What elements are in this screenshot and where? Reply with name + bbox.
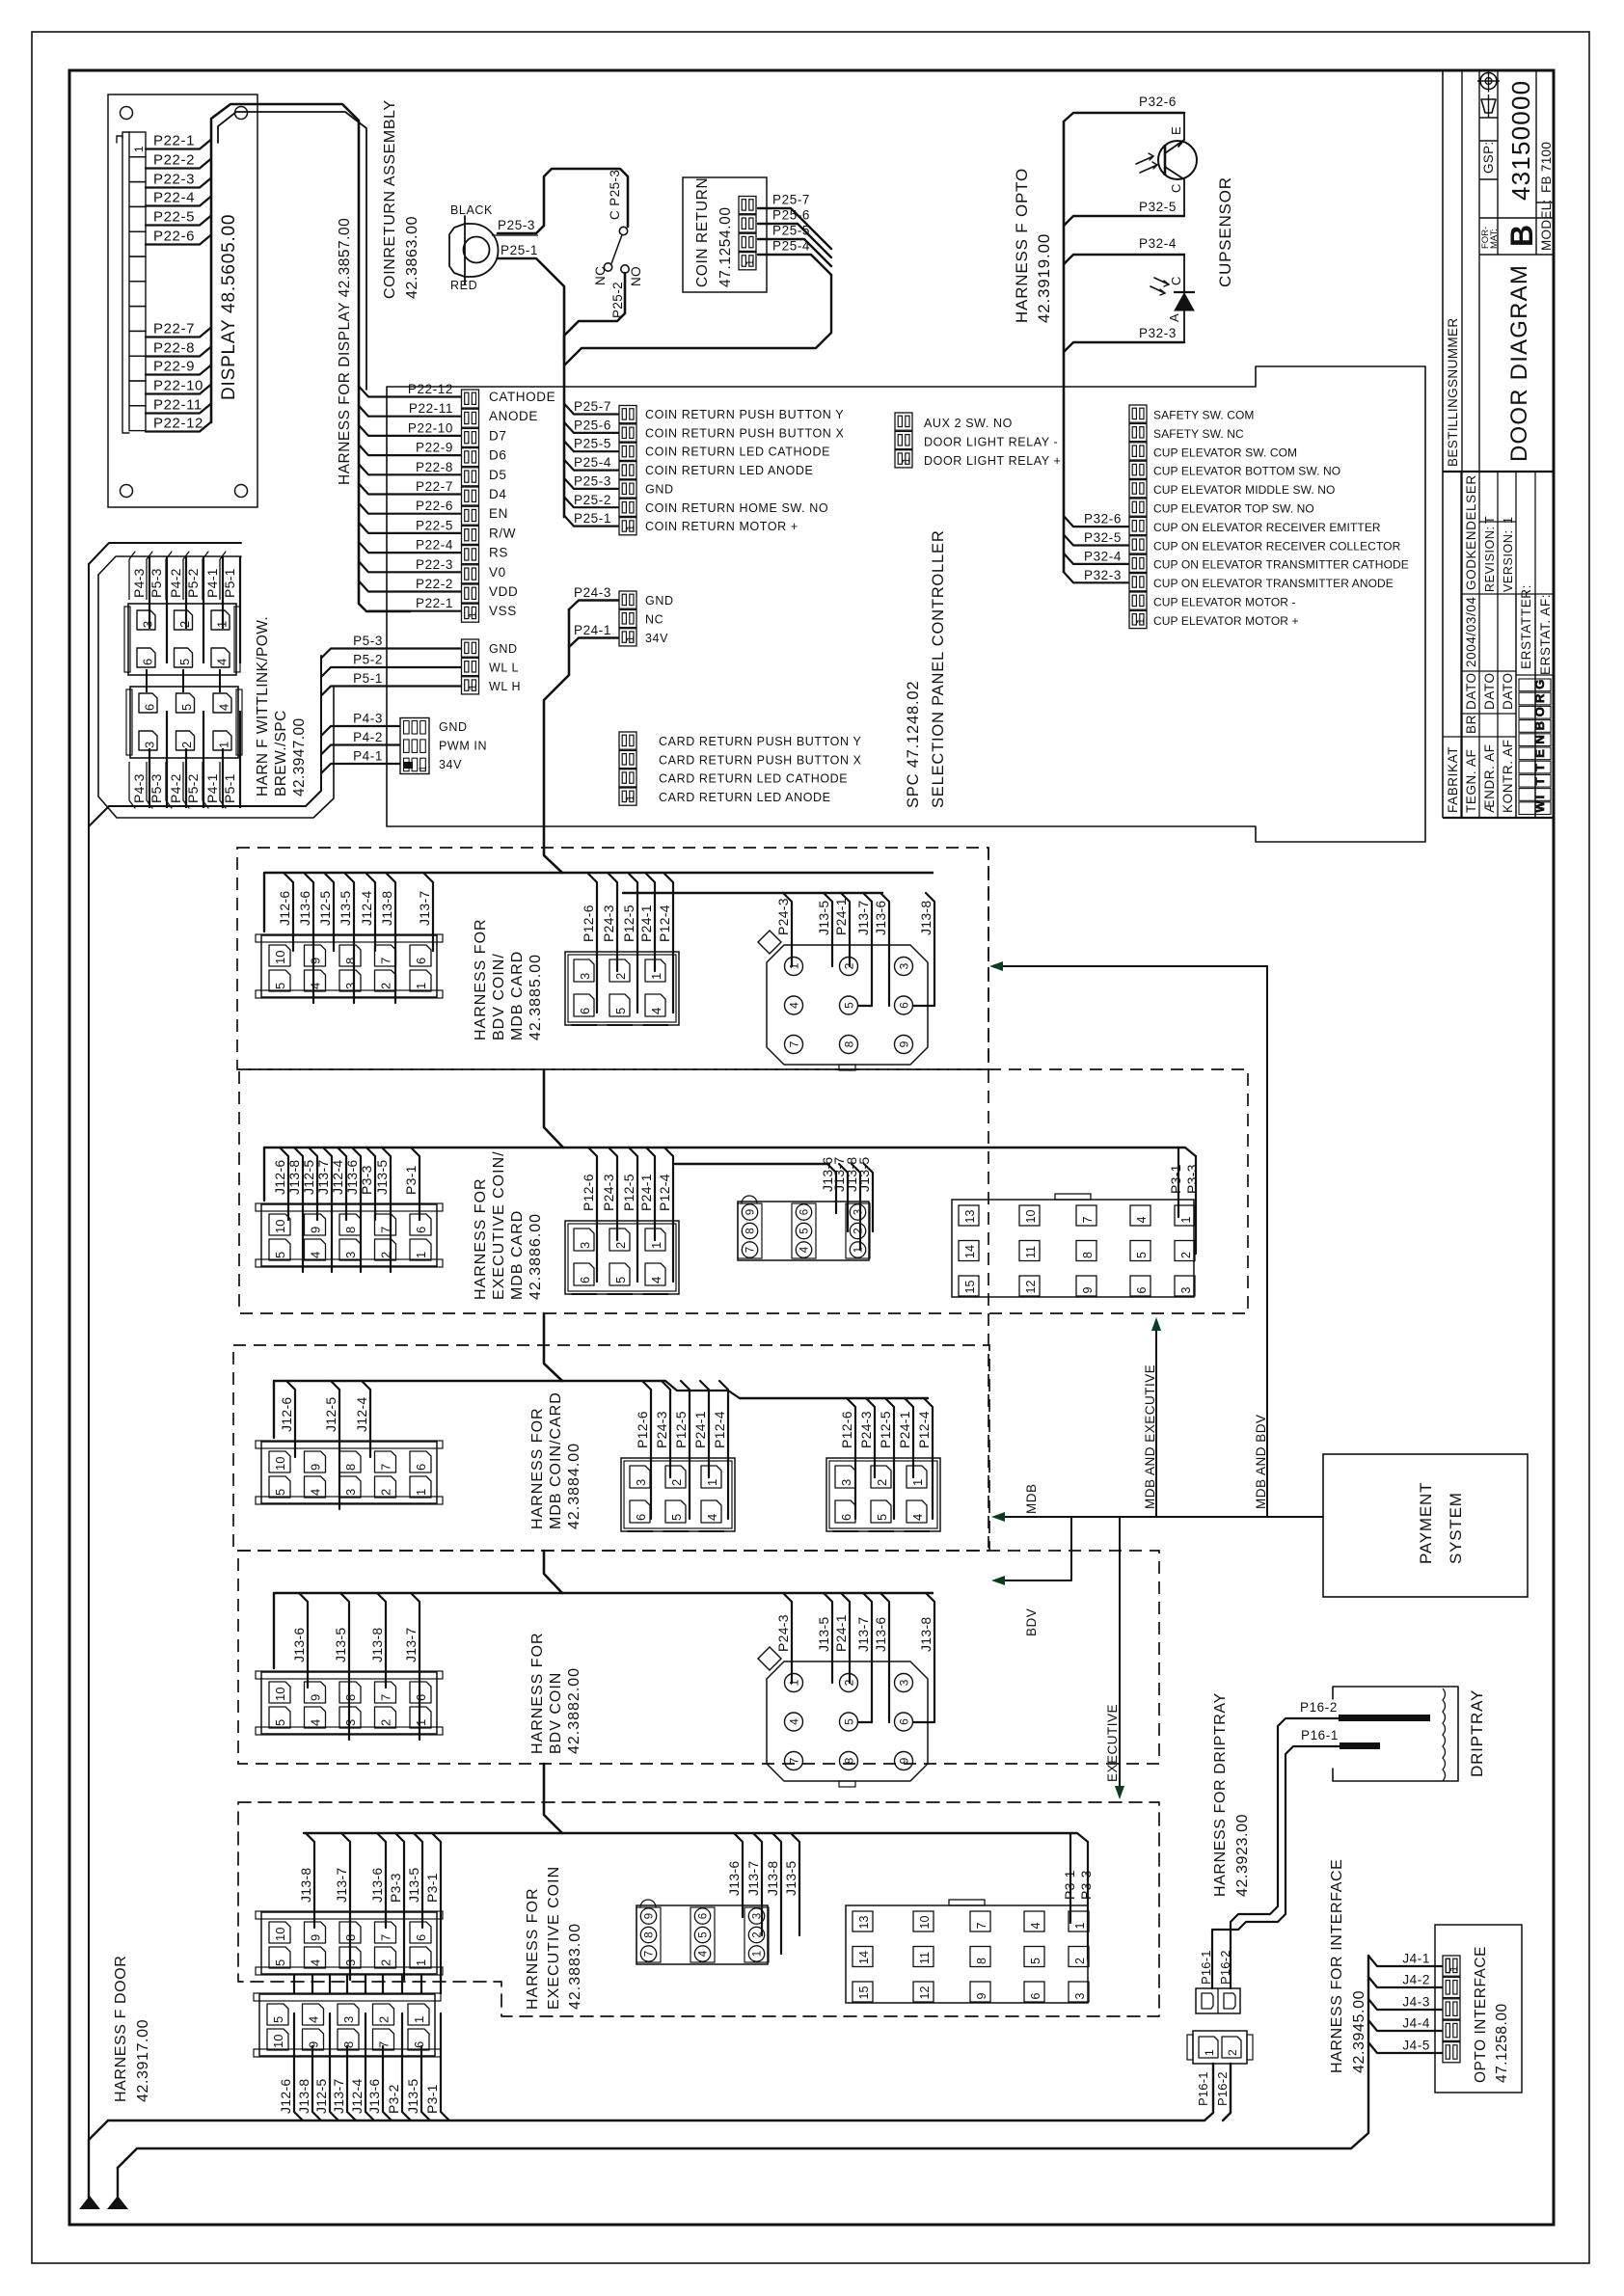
svg-text:J13-8: J13-8 — [918, 1616, 934, 1652]
svg-text:2: 2 — [179, 742, 194, 748]
svg-text:J13-8: J13-8 — [296, 2078, 311, 2114]
svg-text:P4-1: P4-1 — [204, 568, 220, 598]
svg-text:P22-2: P22-2 — [416, 577, 453, 591]
svg-text:C: C — [1169, 183, 1183, 193]
svg-text:J13-8: J13-8 — [918, 900, 934, 935]
harness for display title — [337, 218, 353, 485]
svg-text:J13-6: J13-6 — [369, 1867, 385, 1903]
svg-text:V0: V0 — [489, 565, 506, 580]
svg-text:1: 1 — [705, 1479, 719, 1486]
svg-text:GND: GND — [439, 720, 468, 734]
harness for interface title — [1329, 1859, 1367, 2073]
svg-text:GND: GND — [489, 642, 518, 656]
svg-text:REVISION:: REVISION: — [1483, 526, 1497, 592]
driptray box — [1333, 1687, 1458, 1781]
svg-text:5: 5 — [1029, 1958, 1042, 1964]
svg-text:MDB: MDB — [1024, 1484, 1039, 1515]
svg-text:1: 1 — [1073, 1923, 1087, 1930]
wire box5 bus — [304, 1833, 1088, 1842]
svg-text:DISPLAY 48.5605.00: DISPLAY 48.5605.00 — [219, 214, 239, 400]
svg-text:5: 5 — [843, 1718, 856, 1725]
svg-text:P22-4: P22-4 — [153, 190, 195, 206]
svg-text:42.3885.00: 42.3885.00 — [528, 954, 544, 1040]
svg-text:CUP ON ELEVATOR RECEIVER COLLE: CUP ON ELEVATOR RECEIVER COLLECTOR — [1153, 539, 1401, 553]
svg-text:3: 3 — [898, 1679, 911, 1686]
svg-text:4: 4 — [1029, 1923, 1042, 1930]
svg-text:J4-2: J4-2 — [1402, 1973, 1430, 1987]
svg-text:4: 4 — [309, 1719, 323, 1726]
connector P16 upper — [1196, 1950, 1240, 2013]
svg-text:J12-4: J12-4 — [354, 1396, 369, 1432]
svg-text:P24-3: P24-3 — [775, 1614, 791, 1652]
svg-text:P24-1: P24-1 — [833, 898, 849, 935]
svg-text:P22-6: P22-6 — [153, 229, 195, 245]
svg-text:P22-7: P22-7 — [153, 321, 195, 338]
dashed boundary vertical — [988, 848, 989, 1548]
svg-text:P12-4: P12-4 — [712, 1411, 727, 1448]
dashed box harness EXECUTIVE COIN — [238, 1802, 1159, 2016]
svg-text:P12-5: P12-5 — [621, 905, 636, 942]
svg-text:J12-4: J12-4 — [330, 1159, 345, 1195]
svg-text:P32-6: P32-6 — [1139, 95, 1177, 109]
svg-text:HARNESS FOR: HARNESS FOR — [473, 1177, 489, 1300]
driptray text — [1468, 1689, 1486, 1777]
svg-text:J12-6: J12-6 — [278, 2078, 293, 2114]
svg-text:MDB AND BDV: MDB AND BDV — [1254, 1414, 1268, 1509]
dashed box harness BDV COIN — [238, 1551, 1159, 1764]
svg-text:P25-7: P25-7 — [772, 193, 810, 207]
connector 9pin round box1 — [758, 893, 934, 1070]
svg-text:COIN RETURN HOME SW. NO: COIN RETURN HOME SW. NO — [645, 501, 828, 515]
harness box1 title — [473, 918, 544, 1040]
svg-text:8: 8 — [343, 958, 358, 964]
wire bundle box4 to box5 — [544, 1764, 562, 1833]
svg-text:J13-8: J13-8 — [379, 890, 394, 926]
wire motor P25-1 down bus — [498, 243, 564, 359]
display P22 label fan wires — [146, 133, 211, 432]
wire MDB — [991, 1484, 1323, 1523]
svg-text:I: I — [1532, 795, 1547, 799]
svg-text:10: 10 — [918, 1916, 932, 1930]
svg-text:6: 6 — [143, 704, 157, 711]
svg-text:10: 10 — [273, 1457, 287, 1471]
svg-text:3: 3 — [853, 1209, 865, 1215]
svg-text:P3-3: P3-3 — [1078, 1870, 1094, 1900]
svg-text:P4-2: P4-2 — [168, 568, 183, 598]
connector 10pin box3 — [256, 1381, 443, 1509]
svg-text:PWM IN: PWM IN — [439, 740, 487, 753]
svg-text:HARNESS FOR DRIPTRAY: HARNESS FOR DRIPTRAY — [1212, 1692, 1229, 1897]
svg-text:P24-1: P24-1 — [897, 1411, 912, 1448]
svg-text:P16-1: P16-1 — [1199, 1950, 1213, 1985]
svg-text:7: 7 — [644, 1951, 656, 1957]
wittlink upper labels — [129, 552, 240, 663]
svg-text:P22-3: P22-3 — [153, 172, 195, 188]
title lower table frame — [1443, 472, 1554, 818]
svg-text:34V: 34V — [645, 632, 668, 645]
svg-text:5: 5 — [177, 659, 192, 665]
svg-text:5: 5 — [799, 1228, 811, 1233]
opto interface text — [1473, 1946, 1510, 2083]
svg-text:P16-1: P16-1 — [1301, 1728, 1339, 1742]
svg-text:1: 1 — [132, 146, 146, 152]
svg-text:5: 5 — [843, 1002, 856, 1009]
svg-text:AUX 2 SW. NO: AUX 2 SW. NO — [924, 417, 1013, 430]
svg-text:COIN RETURN LED CATHODE: COIN RETURN LED CATHODE — [645, 446, 830, 459]
svg-text:P5-3: P5-3 — [353, 634, 383, 648]
svg-text:TEGN. AF: TEGN. AF — [1464, 749, 1478, 813]
connector 10pin box4 — [256, 1593, 443, 1740]
connector 15pin box2 — [952, 1148, 1200, 1297]
connector 9pin round box4 — [758, 1593, 934, 1787]
svg-text:3: 3 — [839, 1479, 853, 1486]
svg-text:NC: NC — [645, 613, 663, 627]
svg-text:P16-2: P16-2 — [1215, 2071, 1230, 2106]
svg-text:P25-1: P25-1 — [574, 511, 611, 526]
svg-text:1: 1 — [853, 1247, 865, 1253]
svg-text:7: 7 — [745, 1247, 757, 1253]
svg-text:P25-1: P25-1 — [501, 243, 538, 257]
svg-text:J4-5: J4-5 — [1402, 2039, 1430, 2053]
svg-text:1: 1 — [414, 1252, 428, 1258]
svg-text:6: 6 — [898, 1002, 911, 1009]
svg-text:42.3863.00: 42.3863.00 — [404, 216, 420, 299]
svg-text:6: 6 — [141, 659, 155, 665]
svg-text:P22-1: P22-1 — [153, 133, 195, 149]
svg-text:CARD RETURN PUSH BUTTON Y: CARD RETURN PUSH BUTTON Y — [659, 735, 861, 748]
svg-text:1: 1 — [467, 684, 478, 689]
svg-text:HARNESS FOR: HARNESS FOR — [473, 918, 489, 1040]
svg-text:34V: 34V — [439, 758, 462, 771]
svg-text:1: 1 — [217, 742, 231, 748]
display module DISPLAY 48.5605.00 — [108, 95, 257, 507]
svg-text:J13-6: J13-6 — [726, 1860, 742, 1896]
svg-text:2: 2 — [669, 1479, 684, 1486]
svg-text:B: B — [1504, 225, 1539, 247]
svg-text:P22-8: P22-8 — [153, 340, 195, 357]
svg-text:PAYMENT: PAYMENT — [1417, 1482, 1435, 1564]
svg-text:1: 1 — [1448, 1966, 1460, 1972]
svg-text:P24-3: P24-3 — [601, 905, 616, 942]
svg-text:COIN RETURN: COIN RETURN — [694, 177, 711, 287]
wire cupsensor bundle — [1064, 95, 1184, 573]
svg-text:FABRIKAT: FABRIKAT — [1446, 746, 1460, 813]
title FABRIKAT — [1446, 746, 1460, 813]
svg-text:CUP ELEVATOR MIDDLE SW. NO: CUP ELEVATOR MIDDLE SW. NO — [1153, 483, 1335, 497]
svg-text:P12-4: P12-4 — [657, 905, 672, 942]
svg-text:P24-3: P24-3 — [858, 1411, 874, 1448]
svg-text:42.3882.00: 42.3882.00 — [566, 1667, 582, 1754]
svg-text:P32-5: P32-5 — [1139, 200, 1177, 214]
svg-text:42.3886.00: 42.3886.00 — [528, 1213, 544, 1300]
svg-text:P3-3: P3-3 — [388, 1873, 403, 1903]
svg-text:6: 6 — [839, 1514, 853, 1521]
connector P5 GND/WL — [321, 634, 521, 696]
svg-text:P25-4: P25-4 — [772, 239, 810, 254]
svg-text:COIN RETURN MOTOR +: COIN RETURN MOTOR + — [645, 520, 798, 533]
svg-text:1: 1 — [414, 1959, 428, 1966]
coinreturn assembly title — [382, 99, 420, 299]
svg-text:DATO: DATO — [1464, 672, 1478, 710]
svg-text:9: 9 — [309, 958, 323, 964]
WITTENBORG logo — [1519, 679, 1551, 815]
svg-text:J13-5: J13-5 — [816, 900, 831, 935]
svg-text:2: 2 — [1073, 1958, 1087, 1964]
wire driptray P16-2 — [1231, 1718, 1339, 1988]
svg-text:8: 8 — [343, 1464, 358, 1471]
svg-text:P32-4: P32-4 — [1084, 549, 1122, 563]
svg-text:ERSTAT. AF:: ERSTAT. AF: — [1538, 594, 1553, 675]
connector J4 opto — [1368, 1952, 1460, 2063]
svg-text:P24-3: P24-3 — [775, 898, 791, 935]
svg-text:SAFETY SW. NC: SAFETY SW. NC — [1153, 427, 1244, 441]
svg-text:15: 15 — [963, 1281, 977, 1294]
wire coin-return bundle — [564, 193, 831, 366]
svg-text:P3-1: P3-1 — [1168, 1164, 1183, 1194]
wire mdb-and-bdv arrow to box1 — [989, 961, 1267, 971]
svg-text:P4-3: P4-3 — [131, 773, 147, 803]
svg-text:BR: BR — [1464, 715, 1478, 734]
svg-text:P5-1: P5-1 — [353, 671, 383, 686]
svg-text:P25-5: P25-5 — [574, 437, 611, 451]
svg-text:4: 4 — [788, 1002, 801, 1009]
svg-text:WL L: WL L — [489, 662, 519, 675]
dashed box harness EXECUTIVE COIN/MDB CARD — [239, 1069, 1248, 1313]
svg-text:P12-5: P12-5 — [621, 1174, 636, 1211]
svg-text:OPTO INTERFACE: OPTO INTERFACE — [1473, 1946, 1489, 2083]
connector card return — [619, 732, 862, 805]
svg-text:J12-5: J12-5 — [301, 1159, 316, 1195]
svg-text:10: 10 — [273, 1688, 287, 1701]
svg-text:HARNESS FOR INTERFACE: HARNESS FOR INTERFACE — [1329, 1859, 1345, 2073]
wire switch NO P25-2 down — [564, 273, 625, 517]
svg-text:HARNESS FOR: HARNESS FOR — [529, 1632, 546, 1754]
svg-text:5: 5 — [179, 704, 194, 711]
svg-text:P22-11: P22-11 — [409, 401, 453, 416]
harness box2 title — [473, 1150, 544, 1300]
svg-text:R/W: R/W — [489, 526, 516, 540]
svg-text:P4-3: P4-3 — [353, 712, 383, 726]
svg-text:9: 9 — [975, 1993, 988, 2000]
svg-text:4: 4 — [910, 1514, 925, 1521]
svg-text:D4: D4 — [489, 487, 506, 501]
svg-text:RS: RS — [489, 546, 508, 560]
svg-text:BDV: BDV — [1024, 1608, 1039, 1636]
svg-text:9: 9 — [898, 1757, 911, 1764]
svg-text:GND: GND — [645, 482, 674, 496]
svg-text:7: 7 — [379, 958, 393, 964]
svg-text:10: 10 — [271, 2035, 285, 2048]
svg-text:D6: D6 — [489, 448, 506, 463]
svg-text:4: 4 — [217, 704, 231, 711]
dashed box harness BDV COIN/MDB CARD — [237, 848, 988, 1069]
svg-text:T: T — [1532, 763, 1547, 771]
svg-text:J13-7: J13-7 — [855, 900, 871, 935]
svg-text:4: 4 — [309, 1959, 323, 1966]
connector coin-return 4pin — [739, 197, 756, 270]
svg-text:HARN F WITTLINK/POW.: HARN F WITTLINK/POW. — [255, 616, 271, 797]
coinreturn motor M1 — [449, 203, 499, 292]
svg-text:1: 1 — [788, 1679, 801, 1686]
svg-text:P25-3: P25-3 — [574, 473, 611, 488]
connector P4 GND/PWM/34V — [321, 712, 487, 774]
svg-text:HARNESS F OPTO: HARNESS F OPTO — [1013, 168, 1031, 323]
svg-text:42.3919.00: 42.3919.00 — [1035, 233, 1053, 323]
svg-text:P32-3: P32-3 — [1139, 326, 1177, 340]
svg-text:P3-1: P3-1 — [403, 1165, 419, 1195]
svg-text:6: 6 — [414, 1227, 428, 1233]
svg-text:J12-4: J12-4 — [359, 890, 374, 926]
svg-text:J12-5: J12-5 — [317, 890, 333, 926]
wire P32 fan — [1064, 512, 1128, 583]
svg-text:4: 4 — [799, 1246, 811, 1253]
svg-text:J13-7: J13-7 — [403, 1627, 419, 1662]
svg-text:VSS: VSS — [489, 604, 517, 618]
svg-text:COIN RETURN PUSH BUTTON X: COIN RETURN PUSH BUTTON X — [645, 426, 845, 440]
svg-text:2: 2 — [177, 621, 192, 628]
title KONTR AF row — [1501, 516, 1515, 813]
svg-text:CARD RETURN LED ANODE: CARD RETURN LED ANODE — [659, 791, 831, 804]
svg-text:P4-2: P4-2 — [353, 730, 383, 744]
svg-text:P3-1: P3-1 — [424, 2084, 440, 2114]
svg-text:3: 3 — [898, 962, 911, 969]
svg-text:6: 6 — [578, 1008, 592, 1014]
svg-text:P5-3: P5-3 — [149, 773, 164, 803]
svg-text:J13-7: J13-7 — [331, 2078, 346, 2114]
svg-text:3: 3 — [343, 1252, 358, 1258]
wire bundle box2 to box3 — [544, 1313, 562, 1381]
svg-text:4: 4 — [705, 1514, 719, 1521]
svg-text:VERSION:: VERSION: — [1502, 529, 1515, 592]
svg-text:1: 1 — [1203, 2049, 1216, 2056]
connector wittlink J-upper — [124, 604, 240, 675]
title AENDR AF row — [1482, 516, 1497, 813]
svg-text:P24-3: P24-3 — [601, 1174, 616, 1211]
svg-text:J13-6: J13-6 — [366, 2078, 382, 2114]
svg-text:P22-11: P22-11 — [153, 397, 203, 414]
svg-text:P24-1: P24-1 — [638, 1174, 654, 1211]
title ERSTAT AF — [1538, 594, 1553, 675]
svg-text:P12-5: P12-5 — [673, 1411, 689, 1448]
svg-text:WL H: WL H — [489, 680, 521, 693]
svg-text:J13-7: J13-7 — [745, 1860, 761, 1896]
svg-text:P12-6: P12-6 — [581, 905, 596, 942]
svg-text:2: 2 — [853, 1228, 865, 1233]
svg-text:P5-2: P5-2 — [353, 653, 383, 667]
title TEGN AF row — [1464, 474, 1478, 813]
svg-text:EXECUTIVE COIN/: EXECUTIVE COIN/ — [491, 1150, 507, 1300]
svg-text:P5-1: P5-1 — [222, 773, 237, 803]
svg-text:4: 4 — [307, 2016, 321, 2023]
svg-text:P22-2: P22-2 — [153, 152, 195, 169]
svg-text:8: 8 — [644, 1931, 656, 1937]
svg-text:14: 14 — [963, 1245, 977, 1258]
svg-text:RED: RED — [450, 279, 477, 292]
wire bundle box3 to box4 — [544, 1551, 562, 1593]
title text GSP — [1481, 142, 1496, 174]
svg-text:GND: GND — [645, 594, 674, 608]
svg-text:2: 2 — [875, 1479, 889, 1486]
svg-text:COIN RETURN LED ANODE: COIN RETURN LED ANODE — [645, 464, 813, 477]
connector 10pin box1 — [256, 874, 443, 1003]
svg-text:6: 6 — [1135, 1287, 1149, 1294]
wittlink lower labels — [129, 711, 240, 808]
wire box4 bus — [274, 1593, 934, 1668]
svg-text:7: 7 — [1081, 1217, 1095, 1224]
connector 10pin box5 — [256, 1833, 443, 1980]
svg-text:9: 9 — [309, 1694, 323, 1701]
svg-text:9: 9 — [309, 1464, 323, 1471]
svg-text:12: 12 — [1024, 1281, 1038, 1294]
cupsensor LED D1 — [1150, 255, 1195, 342]
svg-text:6: 6 — [414, 958, 428, 964]
svg-text:BLACK: BLACK — [450, 203, 493, 217]
svg-text:COIN RETURN PUSH BUTTON Y: COIN RETURN PUSH BUTTON Y — [645, 408, 844, 421]
svg-text:P24-1: P24-1 — [574, 623, 611, 637]
svg-text:8: 8 — [843, 1757, 856, 1764]
svg-text:4: 4 — [698, 1950, 710, 1957]
svg-text:P22-3: P22-3 — [416, 557, 453, 572]
svg-text:9: 9 — [309, 1227, 323, 1233]
svg-text:12: 12 — [918, 1986, 932, 2000]
SPC title — [905, 529, 947, 808]
svg-text:2004/03/04: 2004/03/04 — [1464, 596, 1478, 667]
svg-text:P4-3: P4-3 — [131, 568, 147, 598]
wire box2 bus — [264, 1148, 1196, 1201]
svg-text:P4-2: P4-2 — [168, 773, 183, 803]
svg-text:P24-1: P24-1 — [692, 1411, 708, 1448]
svg-text:4: 4 — [649, 1008, 663, 1014]
svg-text:P22-6: P22-6 — [416, 499, 453, 513]
svg-text:6: 6 — [414, 1694, 428, 1701]
svg-text:N: N — [1532, 734, 1547, 743]
svg-text:1: 1 — [414, 983, 428, 989]
svg-text:42.3917.00: 42.3917.00 — [135, 2019, 151, 2102]
svg-text:11: 11 — [918, 1952, 932, 1964]
svg-text:10: 10 — [1024, 1210, 1038, 1224]
svg-text:6: 6 — [799, 1209, 811, 1215]
svg-text:3: 3 — [1073, 1993, 1087, 2000]
svg-text:T: T — [1532, 776, 1547, 785]
svg-text:NC: NC — [593, 266, 608, 285]
svg-text:4: 4 — [309, 1489, 323, 1496]
svg-text:13: 13 — [963, 1210, 977, 1224]
svg-text:1: 1 — [625, 796, 636, 801]
svg-text:J13-5: J13-5 — [338, 890, 353, 926]
svg-text:CARD RETURN PUSH BUTTON X: CARD RETURN PUSH BUTTON X — [659, 753, 862, 767]
svg-text:ÆNDR. AF: ÆNDR. AF — [1482, 743, 1497, 813]
svg-text:1: 1 — [625, 525, 636, 530]
svg-text:DOOR LIGHT RELAY +: DOOR LIGHT RELAY + — [924, 454, 1061, 468]
svg-text:A: A — [1167, 313, 1181, 322]
opto interface box — [1435, 1925, 1522, 2093]
svg-text:CATHODE: CATHODE — [489, 390, 555, 404]
payment system text — [1417, 1482, 1465, 1564]
svg-text:P12-4: P12-4 — [916, 1411, 932, 1448]
harness box3 title — [529, 1391, 582, 1529]
svg-text:D7: D7 — [489, 428, 506, 443]
svg-text:P25-5: P25-5 — [772, 224, 810, 238]
svg-text:P16-2: P16-2 — [1300, 1700, 1338, 1715]
svg-text:MDB CARD: MDB CARD — [509, 951, 526, 1040]
svg-text:J12-5: J12-5 — [313, 2078, 329, 2114]
svg-text:8: 8 — [843, 1040, 856, 1047]
svg-text:DRIPTRAY: DRIPTRAY — [1468, 1689, 1486, 1777]
svg-text:P24-3: P24-3 — [574, 585, 611, 600]
driptray electrode P16-1 — [1301, 1728, 1380, 1749]
svg-text:2: 2 — [377, 2016, 392, 2023]
svg-text:3: 3 — [343, 1489, 358, 1496]
